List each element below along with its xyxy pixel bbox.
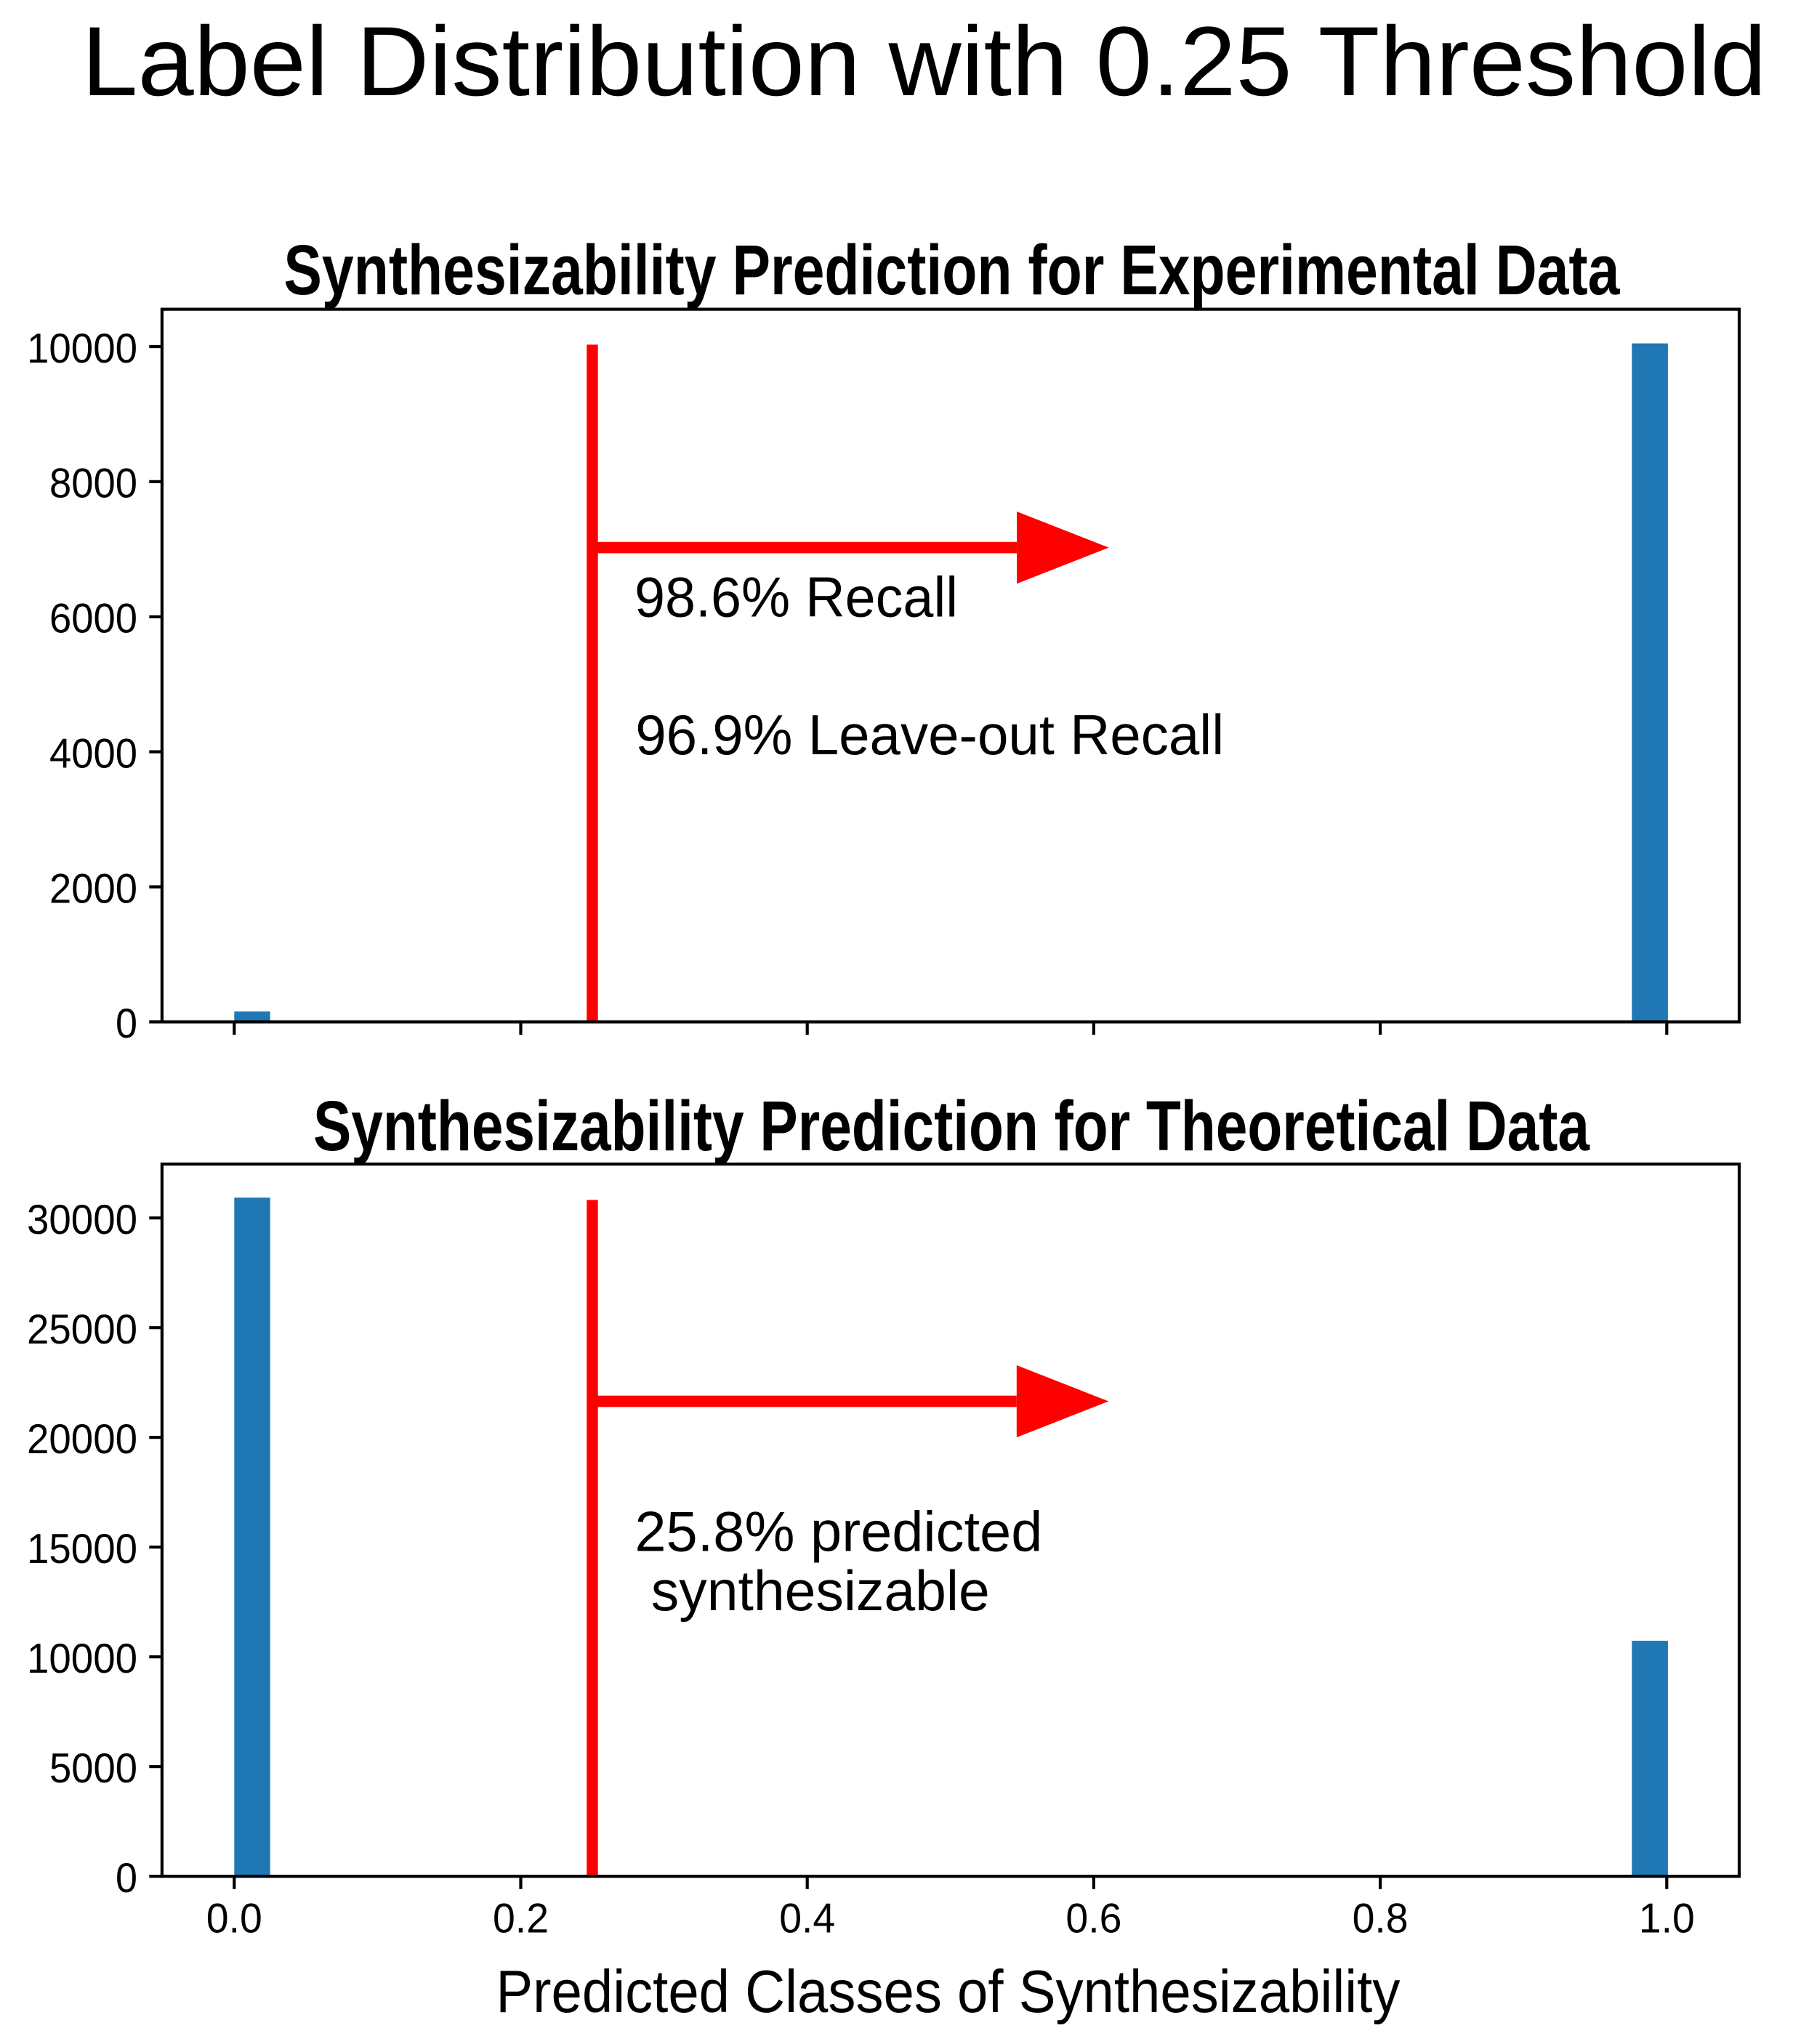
svg-text:10000: 10000 — [27, 326, 137, 372]
svg-text:96.9% Leave-out Recall: 96.9% Leave-out Recall — [635, 704, 1224, 767]
svg-text:8000: 8000 — [49, 461, 137, 507]
plot2 y ticks — [149, 1218, 162, 1876]
svg-text:30000: 30000 — [27, 1197, 137, 1243]
svg-text:5000: 5000 — [49, 1745, 137, 1792]
svg-text:25000: 25000 — [27, 1306, 137, 1353]
svg-text:0.6: 0.6 — [1065, 1896, 1121, 1942]
plot2 red arrow — [592, 1396, 1017, 1407]
svg-text:Synthesizability Prediction fo: Synthesizability Prediction for Experime… — [283, 230, 1620, 310]
plot2 frame — [162, 1164, 1739, 1876]
plot2 red threshold line at x=0.25 — [587, 1200, 597, 1876]
plot2 x ticks — [234, 1876, 1667, 1889]
plot1 red arrow — [592, 542, 1017, 554]
svg-text:6000: 6000 — [49, 596, 137, 642]
svg-text:synthesizable: synthesizable — [651, 1560, 990, 1623]
svg-text:1.0: 1.0 — [1639, 1896, 1695, 1942]
svg-text:Label Distribution with 0.25 T: Label Distribution with 0.25 Threshold — [81, 6, 1766, 116]
svg-text:Synthesizability Prediction fo: Synthesizability Prediction for Theoreti… — [313, 1086, 1590, 1166]
svg-text:15000: 15000 — [27, 1526, 137, 1572]
plot1 red threshold line at x=0.25 — [587, 344, 597, 1022]
svg-text:Predicted Classes of Synthesiz: Predicted Classes of Synthesizability — [496, 1958, 1400, 2025]
svg-text:0.4: 0.4 — [779, 1896, 835, 1942]
svg-text:0.8: 0.8 — [1353, 1896, 1409, 1942]
svg-text:0: 0 — [116, 1855, 137, 1902]
svg-text:25.8% predicted: 25.8% predicted — [634, 1500, 1042, 1563]
plot1 y ticks — [149, 347, 162, 1022]
svg-text:98.6% Recall: 98.6% Recall — [634, 567, 958, 629]
svg-text:2000: 2000 — [49, 865, 137, 912]
svg-text:10000: 10000 — [27, 1636, 137, 1682]
plot1 bar at x=0 — [234, 1011, 270, 1022]
svg-text:4000: 4000 — [49, 730, 137, 777]
plot2 bar at x=1 — [1632, 1641, 1668, 1876]
svg-text:0.2: 0.2 — [493, 1896, 549, 1942]
plot1 frame — [162, 310, 1739, 1022]
plot1 bar at x=1 — [1632, 344, 1668, 1022]
svg-text:0: 0 — [116, 1001, 137, 1047]
svg-text:20000: 20000 — [27, 1416, 137, 1463]
plot2 bar at x=0 — [234, 1197, 270, 1876]
svg-text:0.0: 0.0 — [206, 1896, 262, 1942]
plot1 x ticks — [234, 1022, 1667, 1035]
